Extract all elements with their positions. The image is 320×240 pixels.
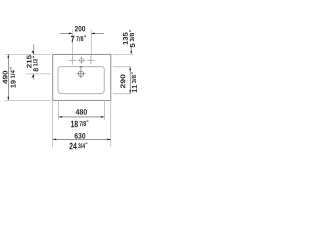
- 490 label (rotated): [3, 71, 8, 84]
- 200 label: [75, 26, 85, 31]
- 630 dimension line with inside arrows: [53, 138, 111, 140]
- 11 3/8" label (rotated): [131, 72, 137, 92]
- junction tick: [80, 66, 83, 68]
- drain / overflow symbol: [77, 69, 86, 78]
- center stub from basin edge to drain: [80, 67, 82, 70]
- 5 3/8" label (rotated): [129, 30, 135, 47]
- 480 dimension (bottom): extension lines: [59, 100, 105, 120]
- 135 outside arrow above: [130, 46, 132, 54]
- 215 label (rotated): [27, 55, 32, 68]
- basin inner bowl rounded rectangle: [58, 67, 104, 94]
- 630 label: [75, 133, 86, 138]
- tap hole cross right: [87, 56, 94, 64]
- 290 label (rotated): [120, 74, 125, 88]
- 630 dimension (bottom): extension lines: [53, 102, 111, 148]
- 490 dimension line with inside arrows: [7, 54, 9, 100]
- 215 outside arrows: [33, 44, 35, 54]
- 19 1/4" label (rotated): [10, 67, 16, 87]
- washbasin outer rim rectangle: [53, 54, 111, 100]
- 7 7/8" label: [71, 36, 86, 43]
- 480 dimension line with inside arrows: [59, 116, 105, 118]
- tap hole cross left: [69, 56, 76, 64]
- 135 dimension (right top): extension lines: [113, 54, 133, 66]
- 215 dimension (left inner): extension line at drain level: [26, 73, 51, 75]
- tap hole cross center with circle: [78, 56, 85, 64]
- 200 dimension (top): extension lines: [72, 30, 91, 59]
- 8 1/2" label (rotated): [33, 56, 39, 71]
- 200 dimension line + outside arrows: [60, 32, 104, 34]
- 18 7/8" label: [71, 120, 88, 127]
- 290 dimension line with inside arrows: [129, 67, 131, 94]
- 24 3/4" label: [69, 143, 87, 150]
- 490 dimension (left): extension lines: [5, 54, 51, 100]
- 135 label (rotated): [123, 32, 128, 44]
- 480 label: [76, 109, 87, 114]
- 290 dimension (right): extension line bottom: [113, 93, 131, 95]
